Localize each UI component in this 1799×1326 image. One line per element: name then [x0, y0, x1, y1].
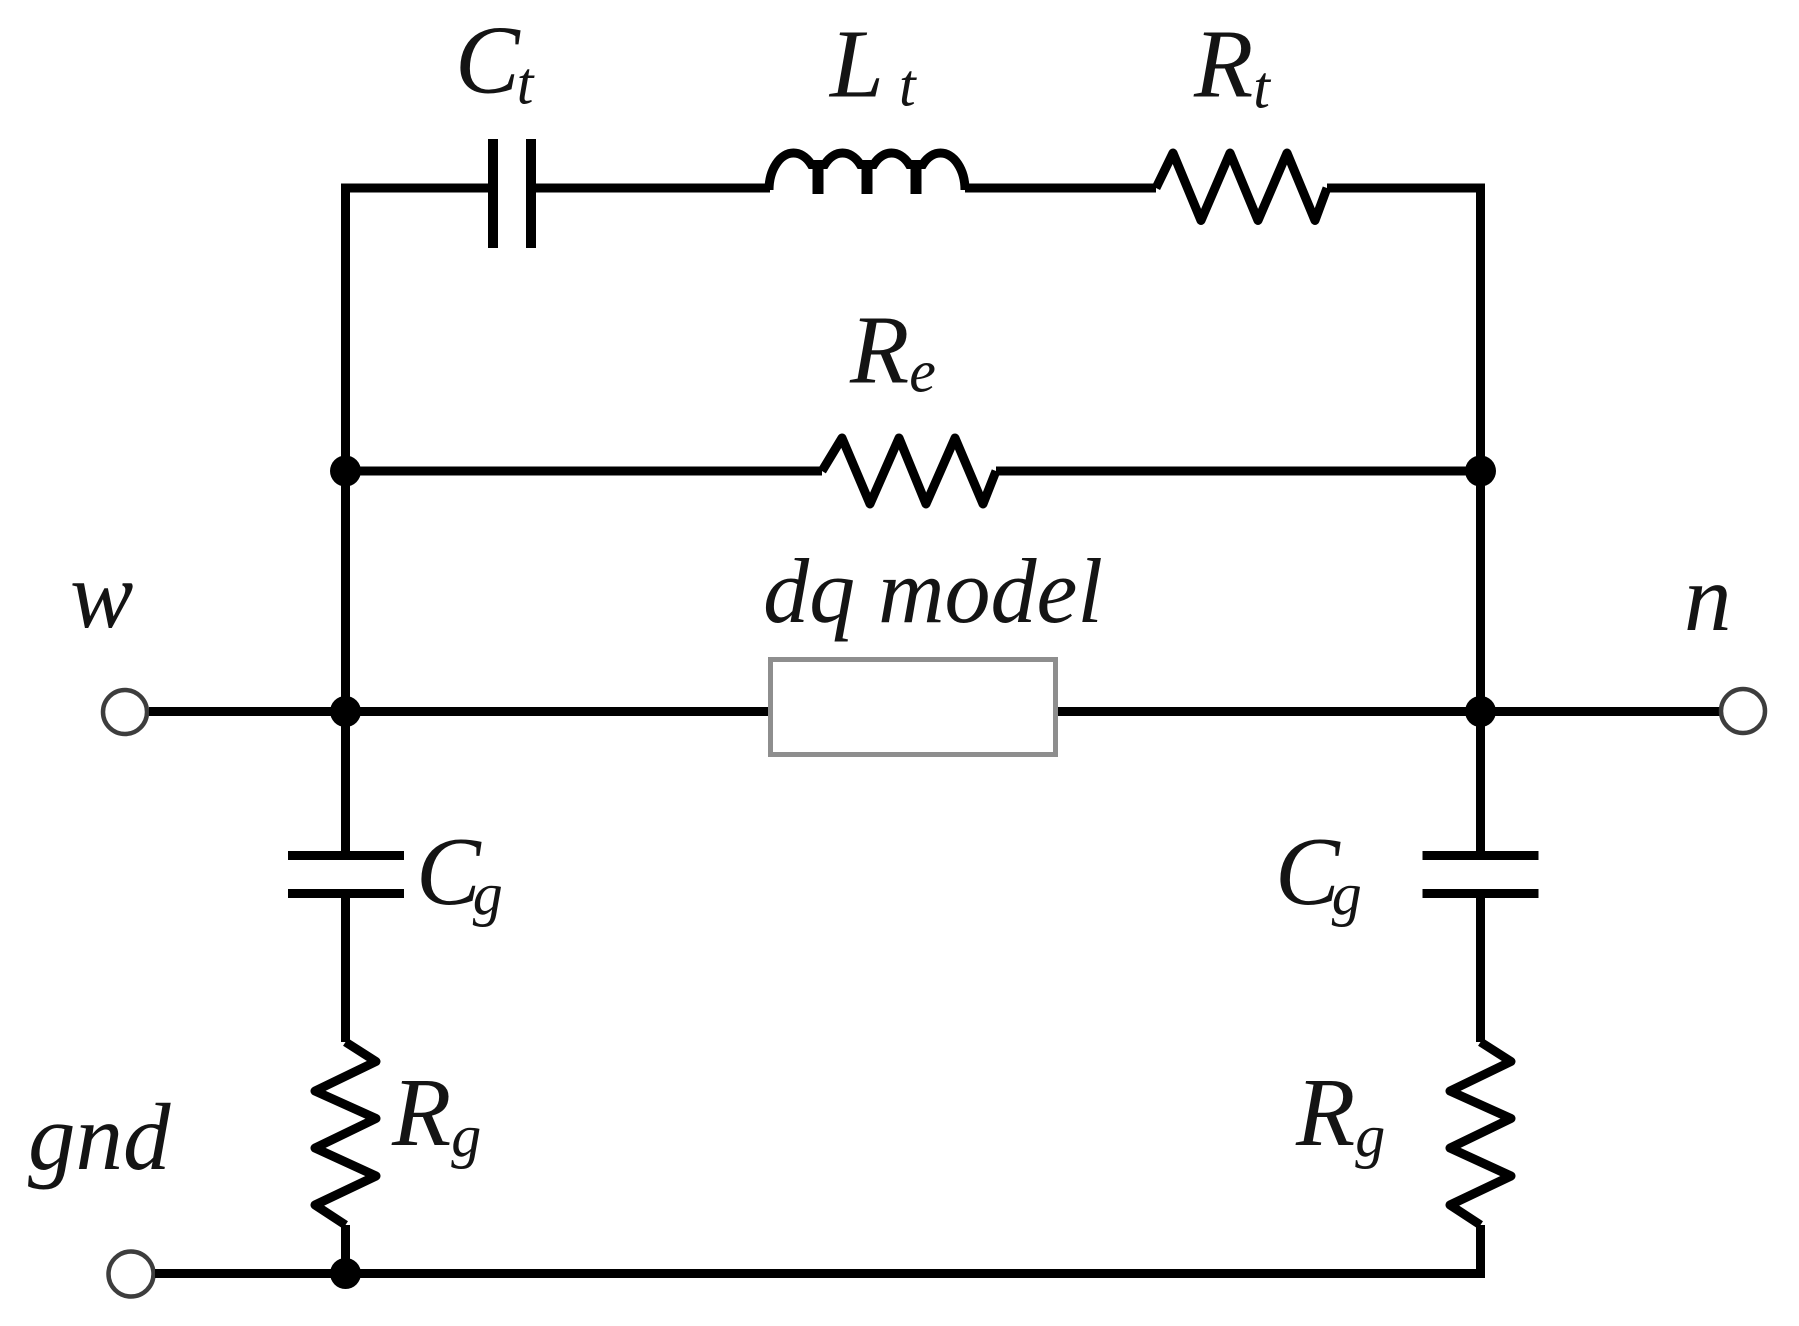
wire: top between Ct and Lt: [536, 184, 770, 193]
resistor Rt: [1156, 153, 1327, 221]
label Re: [849, 297, 936, 405]
node: Re left junction dot: [330, 456, 361, 487]
terminal n (open circle): [1721, 689, 1765, 733]
label Rt: [1193, 11, 1271, 121]
svg-text:Lt: Lt: [828, 11, 917, 119]
dq model box U1: [771, 660, 1056, 755]
svg-text:Cg: Cg: [416, 818, 503, 927]
svg-text:gnd: gnd: [28, 1084, 171, 1190]
node: Re right junction dot: [1465, 456, 1496, 487]
svg-text:n: n: [1684, 545, 1732, 651]
resistor Rg right: [1450, 1042, 1511, 1225]
wire: Re branch left: [346, 467, 823, 476]
terminal w (open circle): [103, 690, 147, 734]
label dq model: [763, 540, 1103, 642]
wire: left rail (Rg bottom to bottom node): [341, 1225, 350, 1274]
wire: top line right with top-right corner (Rt to right rail, down to Cg top plate): [1327, 188, 1481, 856]
node: main line left junction dot: [330, 696, 361, 727]
svg-text:Re: Re: [849, 297, 936, 405]
resistor Re: [822, 438, 996, 504]
capacitor Cg right: [1423, 856, 1539, 894]
wire: Re branch right: [996, 467, 1481, 476]
wire: left rail with top-left corner (Cg top plate up to top line, to Ct): [346, 188, 489, 856]
svg-text:w: w: [70, 542, 133, 648]
node: bottom junction dot: [330, 1258, 361, 1289]
svg-text:Rg: Rg: [391, 1059, 481, 1169]
wire: main line right (dq box to n): [1058, 707, 1721, 716]
label n: [1684, 545, 1732, 651]
label Rg right: [1295, 1059, 1385, 1169]
svg-text:Rg: Rg: [1295, 1059, 1385, 1169]
wire: top between Lt and Rt: [965, 184, 1156, 193]
label w: [70, 542, 133, 648]
wire: right rail (Rg bottom to bottom-right corner): [1476, 1225, 1485, 1278]
wire: bottom line (gnd to bottom right corner): [155, 1269, 1485, 1278]
label Ct: [455, 7, 535, 117]
svg-text:Cg: Cg: [1275, 818, 1362, 927]
label Cg left: [416, 818, 503, 927]
label Cg right: [1275, 818, 1362, 927]
resistor Rg left: [315, 1042, 376, 1225]
capacitor Ct: [493, 139, 531, 248]
node: main line right junction dot: [1465, 696, 1496, 727]
capacitor Cg left: [288, 856, 404, 894]
svg-text:Ct: Ct: [455, 7, 535, 117]
wire: main line left (w to dq box): [149, 707, 768, 716]
label Lt: [828, 11, 917, 119]
svg-text:dq model: dq model: [763, 540, 1103, 642]
inductor Lt: [769, 153, 965, 196]
terminal gnd (open circle): [109, 1252, 154, 1297]
label Rg left: [391, 1059, 481, 1169]
label gnd: [28, 1084, 171, 1190]
wire: left rail (Cg bottom plate to Rg top): [341, 893, 350, 1042]
wire: right rail (Cg bottom plate to Rg top): [1476, 893, 1485, 1042]
svg-text:Rt: Rt: [1193, 11, 1271, 121]
